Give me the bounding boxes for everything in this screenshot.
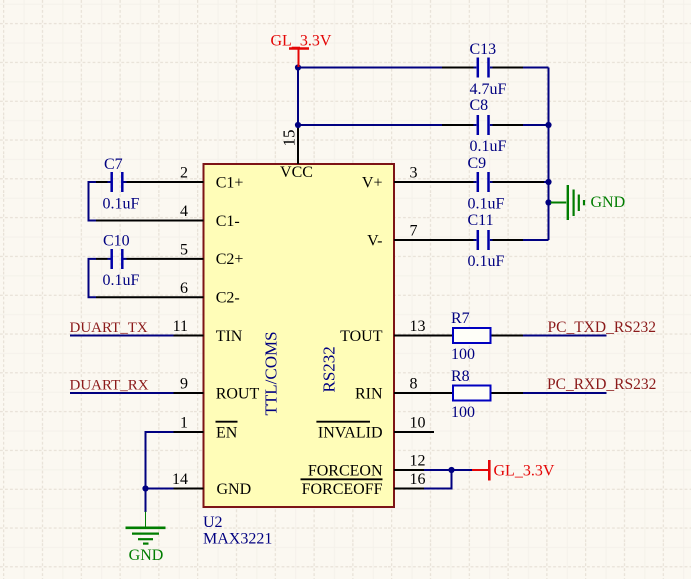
svg-text:0.1uF: 0.1uF	[103, 272, 140, 289]
svg-text:11: 11	[173, 318, 188, 335]
svg-text:C1-: C1-	[216, 213, 240, 230]
svg-text:C8: C8	[470, 97, 489, 114]
svg-text:FORCEOFF: FORCEOFF	[302, 481, 383, 498]
svg-text:8: 8	[410, 376, 418, 393]
svg-text:4.7uF: 4.7uF	[470, 81, 507, 98]
svg-text:INVALID: INVALID	[318, 424, 383, 441]
svg-text:GND: GND	[129, 547, 164, 564]
svg-text:TOUT: TOUT	[340, 328, 383, 345]
svg-text:C10: C10	[103, 233, 130, 250]
svg-text:1: 1	[180, 415, 188, 432]
svg-text:PC_RXD_RS232: PC_RXD_RS232	[547, 376, 656, 393]
svg-text:GL_3.3V: GL_3.3V	[271, 33, 332, 50]
svg-text:100: 100	[451, 404, 475, 421]
svg-text:EN: EN	[216, 424, 238, 441]
svg-text:7: 7	[410, 223, 418, 240]
svg-text:GND: GND	[217, 481, 252, 498]
svg-text:VCC: VCC	[280, 164, 313, 181]
svg-text:0.1uF: 0.1uF	[468, 253, 505, 270]
svg-text:0.1uF: 0.1uF	[470, 138, 507, 155]
svg-text:DUART_RX: DUART_RX	[70, 377, 149, 393]
svg-text:C2-: C2-	[216, 290, 240, 307]
svg-text:GL_3.3V: GL_3.3V	[494, 462, 555, 479]
svg-text:C11: C11	[468, 212, 494, 229]
svg-text:5: 5	[180, 241, 188, 258]
svg-text:4: 4	[180, 203, 188, 220]
svg-text:16: 16	[410, 471, 426, 488]
svg-text:ROUT: ROUT	[216, 385, 260, 402]
svg-text:MAX3221: MAX3221	[203, 531, 272, 548]
svg-text:V+: V+	[362, 174, 383, 191]
svg-text:C13: C13	[470, 41, 497, 58]
svg-text:FORCEON: FORCEON	[308, 462, 383, 479]
svg-text:DUART_TX: DUART_TX	[70, 320, 148, 336]
svg-text:10: 10	[410, 415, 426, 432]
svg-text:100: 100	[451, 346, 475, 363]
svg-text:TTL/COMS: TTL/COMS	[262, 331, 281, 415]
svg-text:RS232: RS232	[320, 346, 339, 392]
svg-text:C7: C7	[104, 156, 123, 173]
svg-text:3: 3	[410, 165, 418, 182]
svg-text:13: 13	[410, 318, 426, 335]
svg-text:PC_TXD_RS232: PC_TXD_RS232	[548, 319, 657, 336]
svg-text:C2+: C2+	[216, 251, 244, 268]
svg-text:R8: R8	[451, 368, 470, 385]
svg-text:C9: C9	[468, 155, 487, 172]
svg-text:RIN: RIN	[355, 385, 383, 402]
svg-text:12: 12	[410, 453, 426, 470]
svg-text:0.1uF: 0.1uF	[468, 196, 505, 213]
svg-text:R7: R7	[451, 310, 470, 327]
svg-text:GND: GND	[591, 194, 626, 211]
svg-text:2: 2	[180, 165, 188, 182]
svg-text:9: 9	[180, 376, 188, 393]
svg-text:15: 15	[280, 130, 299, 147]
svg-text:14: 14	[172, 471, 188, 488]
svg-text:TIN: TIN	[216, 328, 243, 345]
svg-text:V-: V-	[367, 232, 382, 249]
svg-text:6: 6	[180, 280, 188, 297]
svg-text:C1+: C1+	[216, 174, 244, 191]
svg-text:U2: U2	[203, 514, 223, 531]
svg-text:0.1uF: 0.1uF	[103, 196, 140, 213]
